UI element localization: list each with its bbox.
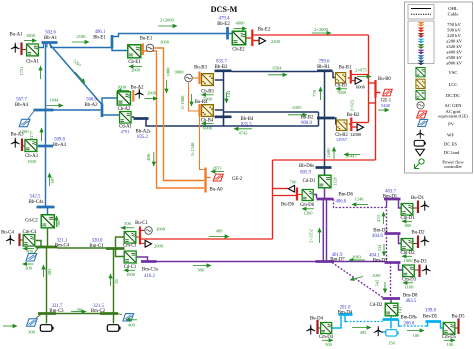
svg-text:403.5: 403.5 [406,299,417,304]
svg-text:Bm-C1: Bm-C1 [89,244,104,249]
wire Bu-E2 to vertical (2x3000) [254,34,369,36]
cable Bm-D2 to Bm-D3 (534) [386,234,388,263]
svg-text:6504: 6504 [273,66,283,71]
svg-text:3000: 3000 [160,40,170,45]
wire Bu-E2 load stub [254,40,259,42]
wire Bm-D8s to Bm-D5 cable link ends [399,320,401,327]
svg-text:1126: 1126 [333,176,338,186]
svg-text:AC GEN: AC GEN [445,103,463,108]
svg-text:Cm-D5: Cm-D5 [442,335,457,340]
wire Bu-C1 to vertical (489) [141,238,273,240]
busbar Bm-D8s [383,318,399,321]
svg-text:700: 700 [290,180,298,185]
busbar Bb-E2 [226,27,229,40]
converter Cb-B1 [335,73,345,83]
converter Cb-B4 [201,105,213,117]
cable Bm-D4 to Bm-D8s (495) [346,321,383,323]
svg-text:Cd-C1: Cd-C1 [124,265,137,270]
wire Bu-E1 gen down to Bu-A0 [155,48,205,181]
svg-text:320.0: 320.0 [92,239,103,244]
bus Bu-E2 [251,30,253,47]
svg-text:835.5: 835.5 [241,122,252,127]
legend DC load [416,149,425,155]
svg-text:Bu-B3: Bu-B3 [194,66,207,71]
wire Bu-B3 gen down to Bu-B4 [189,83,199,112]
bus Bu-B1 [350,70,352,84]
converter Cm-D3 [403,265,415,277]
busbar Bb-B4 drop [223,117,225,126]
converter Cb-A3 [25,139,37,151]
load at Bu-B2 [357,124,363,131]
busbar Bb-B1 [317,69,333,72]
wire Bb-C4s to Cd-C2 [47,208,49,215]
busbar Bm-D1 [384,198,401,201]
busbar Bm-D7 [316,260,335,263]
busbar Bm-C3 [38,312,56,315]
wire PV-C4 link [34,248,38,254]
svg-text:Bm-D6: Bm-D6 [339,193,354,198]
svg-text:2×2069: 2×2069 [160,18,175,23]
wire Bm-C1s to Bm-D7 (990) [157,261,316,263]
wire Cb-E1 to Bu-E1 [141,50,142,52]
svg-text:Bm-C4: Bm-C4 [55,244,70,249]
cable Bm-D1 to Bm-D2 (453) [386,199,388,234]
cable Bm-D3 to Bm-D8 (542) [390,263,392,299]
busbar Bm-C1s [141,260,157,263]
svg-text:DCS-M: DCS-M [211,5,238,14]
wire Bb-D6s to Cd-D1 [324,168,326,176]
wire Bm-D2 to Cm-D2 [399,234,401,244]
svg-text:Bu-A2: Bu-A2 [130,86,144,91]
svg-text:509.8: 509.8 [54,138,65,143]
svg-text:400: 400 [128,323,136,328]
wire Bm-D6 double line down to Bm-D7 [322,199,324,262]
svg-text:Bb-B1: Bb-B1 [317,65,330,70]
cable Bm-D8s to Bm-D5 (100) [400,325,427,327]
flow 495 (D4-D8s) [352,327,371,329]
busbar Bb-B4 [215,115,232,118]
svg-text:502.6: 502.6 [45,31,56,36]
svg-text:9000: 9000 [175,70,185,75]
svg-text:Bm-D2: Bm-D2 [373,229,388,234]
svg-text:Bb-A2: Bb-A2 [84,103,98,108]
wire Bb-B3/B4 vertical [223,72,225,127]
svg-text:2177: 2177 [29,130,34,140]
svg-text:Bb-A4: Bb-A4 [15,103,29,108]
wire Bb-A2s to Bb-B2 (long 4742 line) [146,120,319,127]
svg-text:2000: 2000 [147,91,157,96]
converter Cd-D2 [385,303,398,316]
DC ES at Bm-C3 [40,325,53,332]
busbar Bb-E1 [111,35,114,49]
wire Bb-A1 to Bb-E1 [51,47,113,49]
wire Cb-B1 to Bu-B1 [348,77,350,79]
svg-text:Bb-B4: Bb-B4 [241,117,254,122]
svg-text:500 kV: 500 kV [447,28,461,33]
wire Bb-A2 to Cd-A1 [102,114,119,116]
svg-text:2×1000: 2×1000 [180,95,185,110]
svg-text:Bm-C2: Bm-C2 [91,309,106,314]
wire Cb-A1 to Bb-A1 [39,47,45,49]
busbar Bm-D2 [385,232,401,235]
wire to DC load 700 [273,188,289,190]
generator Bu-E1 [146,44,154,52]
bus Bu-A0 [204,168,206,193]
wire battery C3 link [46,314,48,324]
svg-text:1246: 1246 [355,197,365,202]
busbar Bb-A1 [42,41,58,44]
svg-text:835.2: 835.2 [137,135,148,140]
wire Bb-B1 to Cb-B1 [333,72,335,78]
svg-text:Bu-A0: Bu-A0 [210,188,224,193]
busbar Bb-D6s [316,166,332,169]
converter Cb-E1 [128,45,141,58]
svg-text:Bb-B2: Bb-B2 [301,116,314,121]
svg-text:±500 kV: ±500 kV [446,55,463,60]
wire Bm-D3 to Cm-D3 [399,263,403,271]
svg-text:495: 495 [360,330,368,335]
svg-text:2000: 2000 [131,68,141,73]
wire Bu-B0 down [375,98,377,161]
wire battery C2 link [113,314,115,324]
svg-text:3×1348: 3×1348 [190,142,195,157]
wind turbine Bu-A2 [135,89,144,99]
svg-text:6000: 6000 [356,85,366,90]
PV at Bm-C4 [26,254,37,261]
svg-text:799.6: 799.6 [319,60,330,65]
load at Bu-C1 [141,243,145,245]
svg-text:Bm-C1s: Bm-C1s [142,268,158,273]
converter Cb-E2 [232,31,246,45]
legend power flow controller [415,159,425,169]
svg-text:controller: controller [444,164,462,169]
svg-text:Bb-E1: Bb-E1 [93,35,106,40]
wire Cm-D6 to Bm-D6 [314,195,317,199]
wire Cd-D2 to Bm-D8s [390,317,392,320]
converter Cb-B3 [201,74,213,86]
svg-text:Bu-D2: Bu-D2 [411,231,425,236]
wire Bm-D4 to Cm-D4 [332,316,341,328]
PV at Bm-C2 [123,314,134,321]
wire Bm-C1 down to Bm-C2 [113,249,115,314]
wire Cd-C2 to Bm-C4 [47,229,49,247]
svg-text:1944: 1944 [50,98,60,103]
svg-text:150: 150 [388,341,396,346]
wire left vertical down [272,160,274,239]
busbar Bb-A1 ticks [43,44,45,48]
svg-text:Bu-B1: Bu-B1 [339,66,352,71]
wire Bb-B3 to Bb-B1 (6504) [232,71,318,73]
converter Cm-D1 [401,203,413,215]
legend OHL/Cable box [408,5,434,20]
wire Cm-C1 to Bu-C1 [137,236,140,238]
svg-text:835.7: 835.7 [216,60,227,65]
converter Cb-A1 [26,44,38,56]
svg-text:200.0: 200.0 [404,322,415,327]
svg-text:Bm-D4: Bm-D4 [338,310,353,315]
wire Bb-A1 diagonal to Bb-A2 [50,44,102,105]
svg-text:equivalent (GE): equivalent (GE) [438,114,468,119]
svg-text:2×1552: 2×1552 [309,229,314,243]
bus Bu-C1 [139,227,141,245]
svg-text:4791: 4791 [121,129,130,134]
svg-text:DC ES: DC ES [444,141,457,146]
DC ES at Bm-D8s [386,330,399,336]
wire Cd-A1 to Bb-A2s [132,116,134,118]
wire Bb-A4 to Bb-A2 [54,109,101,111]
wire Bm-C4 to Bm-C1 [58,247,107,249]
wire Cb-B2 to Bu-B2 [349,123,351,125]
wire Bm-D8s down to DC ES [390,320,392,329]
svg-text:Bb-A3: Bb-A3 [53,143,67,148]
wire Bu-A0 to GE-2 [207,177,211,179]
svg-text:5440: 5440 [381,103,391,108]
legend VSC [416,68,425,77]
wire PV-A4 link [28,111,34,119]
svg-text:3000: 3000 [156,227,166,232]
legend DC/DC [416,90,425,99]
svg-text:Cb-B1: Cb-B1 [335,84,348,89]
converter Cm-D5 [443,322,455,334]
svg-text:1000: 1000 [404,258,414,263]
busbar Bb-B2 [317,117,335,120]
legend AC grid equivalent [417,111,427,118]
busbar Bb-A3 [38,145,53,148]
svg-text:GE-2: GE-2 [232,177,243,182]
svg-text:2×3000: 2×3000 [314,27,329,32]
svg-text:100: 100 [413,333,421,338]
wire Bu-B2 to vertical [353,122,369,124]
wire Cd-C1 to Bm-C1s [137,257,148,261]
converter Cd-C1 [124,251,136,263]
converter Cm-D2 [401,238,413,250]
svg-text:1600: 1600 [117,85,127,90]
svg-text:534: 534 [377,244,382,252]
svg-text:Cb-E2: Cb-E2 [232,48,245,53]
converter Cd-C2 [41,215,54,228]
wire Cb-B4 to vertical [215,109,224,111]
svg-text:12957: 12957 [336,137,348,142]
svg-text:2×623: 2×623 [350,99,355,111]
wire Bb-A3 stub [38,145,46,147]
svg-text:Bu-B2: Bu-B2 [347,113,360,118]
wire Bb-E1 to Bb-E2 [112,34,227,37]
svg-text:416.2: 416.2 [144,274,155,279]
svg-text:479.4: 479.4 [219,17,230,22]
svg-text:Bu-D1: Bu-D1 [411,196,425,201]
svg-text:Cb-E1: Cb-E1 [128,60,141,65]
svg-text:±400 kV: ±400 kV [446,50,463,55]
legend box [405,2,473,173]
svg-text:1600: 1600 [326,148,331,158]
wire Bu-B4 down to Bu-A0 [200,117,204,170]
flow 4742 [234,128,252,130]
wire Bu-B0 to GE-1 [377,92,381,94]
svg-text:199.8: 199.8 [425,309,436,314]
svg-text:Bb-D6s: Bb-D6s [299,164,314,169]
converter Cm-D4 [321,322,332,333]
wire Bm-D4 cable end [345,315,346,322]
svg-text:Cb-B4: Cb-B4 [201,119,214,124]
svg-text:Cm-D1: Cm-D1 [400,216,415,221]
svg-text:7000: 7000 [337,90,347,95]
flow 500 [23,248,34,250]
legend voltage arrows box [408,21,434,64]
svg-text:PV: PV [448,121,455,126]
svg-text:Cd-C2: Cd-C2 [25,219,38,224]
svg-text:Cb-B3: Cb-B3 [201,89,214,94]
wire Cm-C1 to Bm-C1 [116,237,124,249]
svg-text:6395: 6395 [293,105,303,110]
svg-text:Bu-B4: Bu-B4 [195,100,208,105]
svg-text:1200: 1200 [304,211,314,216]
svg-text:567.7: 567.7 [16,98,27,103]
svg-text:406.0: 406.0 [336,200,347,205]
bus Bu-D6 [296,188,298,201]
wind turbine at Bm-D8s [374,326,383,336]
busbar Bm-D3 [385,261,401,264]
svg-text:Bb-B3: Bb-B3 [215,65,228,70]
busbar Bb-A2 [101,104,104,118]
svg-text:Cm-C4: Cm-C4 [23,230,37,235]
wire 2x447 horizontal [273,159,376,161]
svg-text:±200 kV: ±200 kV [446,39,463,44]
wire Bm-D1 to Cm-D1 [399,199,401,208]
svg-text:26: 26 [114,279,119,284]
svg-text:4000: 4000 [236,21,246,26]
wire Bm-D7 to Bm-D3 (1083) [334,261,385,263]
svg-text:±320 kV: ±320 kV [446,44,463,49]
busbar Bm-C4 [36,246,58,249]
svg-text:4742: 4742 [239,131,248,136]
wire Bu-B1 to vertical (2x975) [352,74,369,76]
wire Cm-C4 to Bm-C4 [36,241,41,248]
busbar Bm-D6 [317,198,334,201]
svg-text:WF: WF [447,132,454,137]
svg-text:Bu-D3: Bu-D3 [413,260,427,265]
svg-text:805.9: 805.9 [300,171,311,176]
DC ES at Bm-C2 [107,325,120,332]
bus Bu-E1 [142,44,144,56]
svg-text:200: 200 [25,266,33,271]
svg-text:Bu-C1: Bu-C1 [135,221,148,226]
svg-text:Bu-B0: Bu-B0 [378,77,391,82]
wire red vertical at x368 [368,35,370,123]
AC grid equivalent GE-2 [213,174,223,181]
svg-text:778: 778 [312,89,317,97]
svg-text:Bb-E2: Bb-E2 [217,22,230,27]
wire Bm-C1 to Cd-C1 [116,249,124,257]
svg-text:Bu-E1: Bu-E1 [140,37,153,42]
svg-text:489: 489 [216,229,224,234]
wire Bb-E2 to Cb-E2 [229,31,234,34]
svg-text:Cd-D2: Cd-D2 [370,303,383,308]
legend LCC [416,79,425,88]
svg-text:2653: 2653 [213,166,223,171]
svg-text:750 kV: 750 kV [447,22,461,27]
svg-text:2200: 2200 [271,39,281,44]
busbar Bm-D4 [339,313,353,316]
svg-text:220 kV: 220 kV [447,33,461,38]
wire Bm-C4 down to Bm-C3 [46,247,48,314]
svg-text:Bu-E2: Bu-E2 [258,28,271,33]
busbar Bm-C1 [106,247,125,250]
svg-text:542.5: 542.5 [30,195,41,200]
svg-text:Cd-D1: Cd-D1 [303,179,316,184]
svg-text:1000: 1000 [126,272,136,277]
busbar Bb-B3 [215,69,232,72]
svg-text:DC load: DC load [444,150,460,155]
wire Bb-B2 left connector [318,112,320,126]
flow 990 [193,265,211,267]
cable Bm-D6 to Bm-D1 (1246) [334,199,387,208]
svg-text:1000: 1000 [166,67,171,77]
svg-text:Bu-C4: Bu-C4 [1,230,14,235]
svg-text:Cable: Cable [448,12,459,17]
svg-text:Bb-C4s: Bb-C4s [29,200,44,205]
wire Bb-A1 down to Bb-A4/A3/C4s [45,44,47,207]
svg-text:697: 697 [50,176,55,184]
svg-text:1083: 1083 [352,255,362,260]
wire Bb-E1 to Cb-E1 [112,48,127,51]
svg-text:Cm-D2: Cm-D2 [400,251,415,256]
bus Bu-B0 [374,80,376,98]
svg-text:542: 542 [375,280,380,287]
svg-text:Cm-D6: Cm-D6 [300,203,315,208]
flow 100 (D8s-D5) [407,330,424,332]
svg-text:496.1: 496.1 [95,30,106,35]
svg-text:12000: 12000 [350,132,362,137]
wire Cb-E2 to Bu-E2 [247,37,252,39]
svg-text:1800: 1800 [26,33,36,38]
converter Cd-D1 to Bm-D6 wire [324,189,326,200]
svg-text:Cb-A1: Cb-A1 [26,60,39,65]
legend DC ES [414,140,426,146]
wire Cb-B3 to vertical [215,79,224,81]
svg-text:800.0: 800.0 [301,121,312,126]
wire Bu-B1 load stub [352,80,355,82]
wire Bm-D8 to Cd-D2 [390,299,392,303]
svg-text:Bu-D6: Bu-D6 [281,203,295,208]
svg-text:Bm-D8s: Bm-D8s [401,316,417,321]
converter Cd-D1 [319,175,332,188]
svg-text:500.0: 500.0 [86,98,97,103]
PV at Bb-A4 [19,119,30,126]
legend PV [418,120,428,127]
PV at Bm-C3 [26,319,37,326]
svg-text:400: 400 [146,153,151,161]
svg-text:Cm-D3: Cm-D3 [402,278,417,283]
converter Cm-C4 [23,234,35,246]
busbar Bm-D8 [383,297,401,300]
svg-text:453: 453 [376,214,381,222]
svg-text:Bb-A1: Bb-A1 [44,36,58,41]
svg-text:300: 300 [28,330,36,335]
svg-text:800: 800 [405,223,413,228]
svg-text:Bu-A1: Bu-A1 [9,33,23,38]
svg-text:6000: 6000 [203,125,213,130]
wire vertical to Bu-B0 lower [369,102,376,104]
svg-text:VSC: VSC [449,70,458,75]
svg-text:990: 990 [198,268,206,273]
wire Bb-B1 down through Bb-B2 to Bb-D6s [324,72,326,168]
busbar Bb-A2s [134,117,149,120]
wire Bu-D6 to Cm-D6 [298,194,302,196]
wire Bm-C3 to Bm-C2 (96) [56,313,100,315]
svg-text:OHL: OHL [448,6,458,11]
svg-text:Bm-D1: Bm-D1 [383,195,398,200]
load at Bu-B1 [355,77,361,84]
